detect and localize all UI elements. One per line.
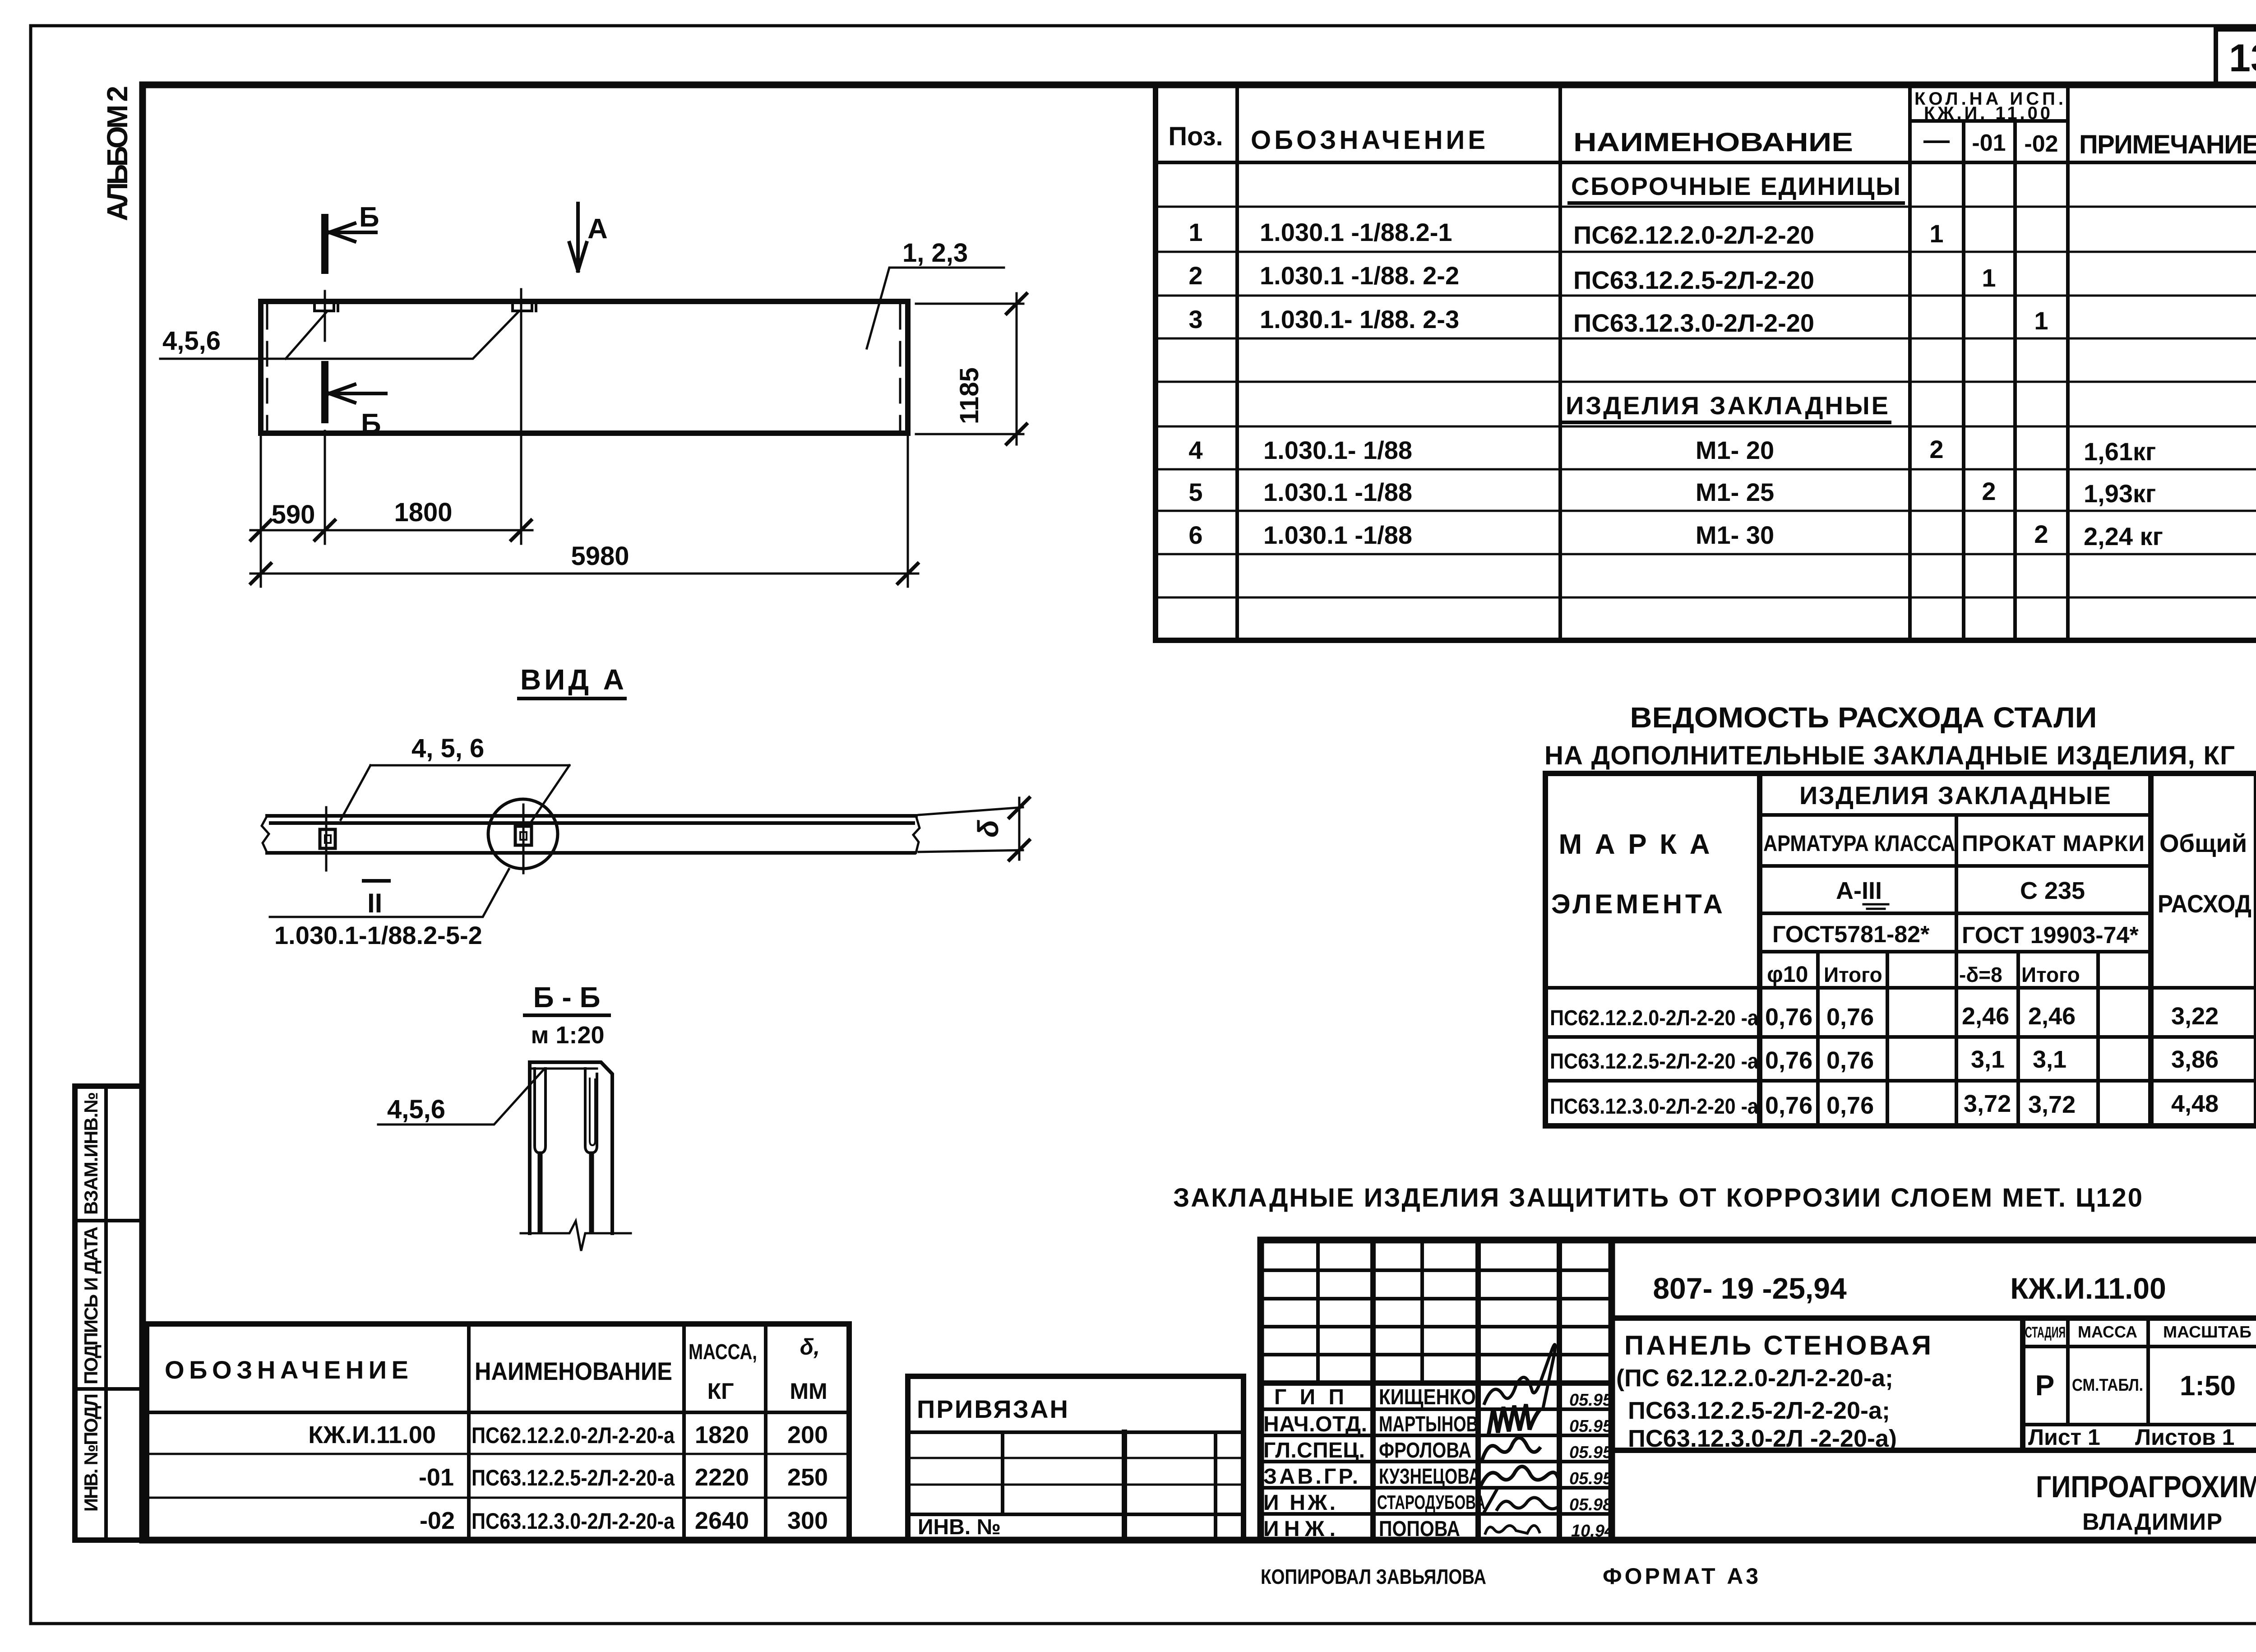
panel name <box>1616 1330 1931 1452</box>
header A-III <box>1836 877 1888 909</box>
svg-text:300: 300 <box>787 1507 828 1534</box>
svg-text:МАССА,: МАССА, <box>689 1340 757 1364</box>
leader 4,5,6 (plan) <box>160 311 518 359</box>
svg-text:δ: δ <box>972 819 1004 838</box>
section B-B column <box>530 1062 612 1233</box>
svg-text:ФОРМАТ А3: ФОРМАТ А3 <box>1603 1564 1758 1589</box>
steel row 3 <box>1550 1090 2219 1119</box>
svg-text:05.98: 05.98 <box>1569 1495 1613 1514</box>
svg-text:СТАРОДУБОВА: СТАРОДУБОВА <box>1377 1491 1485 1513</box>
corrosion note <box>1173 1183 2142 1212</box>
page number box <box>2216 29 2256 86</box>
svg-text:ГЛ.СПЕЦ.: ГЛ.СПЕЦ. <box>1263 1439 1365 1462</box>
svg-text:ПРИМЕЧАНИЕ: ПРИМЕЧАНИЕ <box>2079 130 2256 159</box>
section arrow B lower <box>329 384 386 403</box>
svg-text:ПС63.12.3.0-2Л-2-20: ПС63.12.3.0-2Л-2-20 <box>1573 309 1814 337</box>
title block line under numbers <box>1612 1315 2256 1321</box>
svg-text:3,22: 3,22 <box>2171 1003 2219 1030</box>
svg-text:4,5,6: 4,5,6 <box>387 1095 445 1124</box>
svg-text:И НЖ.: И НЖ. <box>1263 1491 1336 1515</box>
svg-text:—: — <box>1923 125 1950 155</box>
header Изделия закладные <box>1799 781 2111 810</box>
svg-text:ПРОКАТ МАРКИ: ПРОКАТ МАРКИ <box>1962 831 2145 856</box>
left margin stamp box <box>75 1086 143 1540</box>
svg-text:1.030.1-1/88.2-5-2: 1.030.1-1/88.2-5-2 <box>274 921 482 949</box>
svg-text:4: 4 <box>1188 436 1202 464</box>
svg-text:Б - Б: Б - Б <box>533 981 601 1013</box>
svg-text:3,72: 3,72 <box>1964 1090 2011 1117</box>
header Наименование (bottom table) <box>475 1357 672 1385</box>
svg-text:ПС63.12.3.0-2Л-2-20 -а: ПС63.12.3.0-2Л-2-20 -а <box>1550 1095 1758 1119</box>
svg-text:ПС63.12.3.0-2Л-2-20-а: ПС63.12.3.0-2Л-2-20-а <box>472 1509 675 1534</box>
svg-text:ЭЛЕМЕНТА: ЭЛЕМЕНТА <box>1551 889 1723 919</box>
index row 3 <box>420 1507 828 1534</box>
leader 1,2,3 <box>867 238 1004 348</box>
header Арматура класса <box>1763 831 1955 856</box>
svg-text:3,72: 3,72 <box>2028 1091 2076 1118</box>
row ГЛ.СПЕЦ. Фролова <box>1263 1439 1613 1462</box>
svg-text:φ10: φ10 <box>1767 962 1808 987</box>
svg-text:ПС63.12.2.5-2Л-2-20 -а: ПС63.12.2.5-2Л-2-20 -а <box>1550 1050 1758 1074</box>
svg-text:-02: -02 <box>2024 131 2058 157</box>
svg-text:3: 3 <box>1188 305 1202 333</box>
svg-text:Б: Б <box>361 408 381 440</box>
detail circle <box>488 799 558 869</box>
svg-text:ГОСТ5781-82*: ГОСТ5781-82* <box>1772 921 1930 948</box>
svg-text:1: 1 <box>1188 218 1202 246</box>
leader 4,5,6 (section) <box>378 1069 545 1124</box>
svg-text:2,24 кг: 2,24 кг <box>2084 522 2163 551</box>
svg-text:СБОРОЧНЫЕ ЕДИНИЦЫ: СБОРОЧНЫЕ ЕДИНИЦЫ <box>1571 172 1900 200</box>
row ГИП Кищенко <box>1274 1385 1613 1410</box>
vertical label Альбом 2 <box>101 86 134 221</box>
header Поз. <box>1168 122 1223 151</box>
header Общий расход <box>2158 829 2251 918</box>
thickness dimension delta <box>919 798 1029 860</box>
svg-text:М1- 25: М1- 25 <box>1696 478 1774 506</box>
signature rows grid <box>1261 1409 1612 1514</box>
embedded plate notch 2 <box>513 303 536 311</box>
svg-text:1.030.1- 1/88: 1.030.1- 1/88 <box>1263 436 1412 464</box>
svg-text:Общий: Общий <box>2159 829 2247 857</box>
leader 1.030.1-1/88.2-5-2 <box>270 869 509 949</box>
svg-text:δ,: δ, <box>800 1334 820 1360</box>
row 5 <box>1188 477 2156 508</box>
svg-text:-02: -02 <box>420 1507 455 1534</box>
label Инв.№ <box>918 1515 1001 1539</box>
dimension 1185 <box>916 293 1026 444</box>
letter B lower <box>361 408 381 440</box>
svg-text:ПАНЕЛЬ СТЕНОВАЯ: ПАНЕЛЬ СТЕНОВАЯ <box>1624 1330 1931 1360</box>
svg-text:МАСШТАБ: МАСШТАБ <box>2163 1323 2251 1341</box>
svg-text:0,76: 0,76 <box>1826 1004 1874 1031</box>
svg-text:ПОДПИСЬ И ДАТА: ПОДПИСЬ И ДАТА <box>80 1226 102 1384</box>
svg-text:СТАДИЯ: СТАДИЯ <box>2025 1324 2066 1341</box>
svg-text:1,61кг: 1,61кг <box>2084 437 2156 466</box>
svg-text:Итого: Итого <box>1824 963 1882 986</box>
svg-text:4, 5, 6: 4, 5, 6 <box>411 734 484 763</box>
svg-text:КЖ.И.11.00: КЖ.И.11.00 <box>308 1421 436 1448</box>
dimension 5980 <box>250 436 918 587</box>
row ИНЖ. Стародубова <box>1263 1491 1613 1515</box>
svg-text:МАРТЫНОВ: МАРТЫНОВ <box>1379 1412 1478 1436</box>
svg-text:АЛЬБОМ 2: АЛЬБОМ 2 <box>101 86 134 221</box>
svg-text:ВИД А: ВИД А <box>520 663 624 696</box>
svg-text:ИНВ. №ПОДЛ: ИНВ. №ПОДЛ <box>80 1393 102 1512</box>
svg-text:ВЗАМ.ИНВ.№: ВЗАМ.ИНВ.№ <box>80 1092 102 1215</box>
svg-text:3,1: 3,1 <box>2033 1046 2066 1073</box>
svg-text:РАСХОД: РАСХОД <box>2158 889 2251 918</box>
svg-text:1.030.1 -1/88: 1.030.1 -1/88 <box>1263 478 1412 506</box>
note Копировал / Формат <box>1261 1564 1758 1589</box>
svg-text:(ПС 62.12.2.0-2Л-2-20-а;: (ПС 62.12.2.0-2Л-2-20-а; <box>1616 1365 1893 1392</box>
name cell borders <box>1612 1318 2256 1450</box>
svg-text:ИЗДЕЛИЯ ЗАКЛАДНЫЕ: ИЗДЕЛИЯ ЗАКЛАДНЫЕ <box>1799 781 2111 810</box>
svg-text:М1- 30: М1- 30 <box>1696 521 1774 549</box>
svg-text:2,46: 2,46 <box>2028 1003 2076 1030</box>
header Масса, кг <box>689 1340 757 1404</box>
svg-text:ПС62.12.2.0-2Л-2-20 -а: ПС62.12.2.0-2Л-2-20 -а <box>1550 1006 1758 1030</box>
svg-text:6: 6 <box>1188 521 1202 549</box>
svg-text:ИЗДЕЛИЯ ЗАКЛАДНЫЕ: ИЗДЕЛИЯ ЗАКЛАДНЫЕ <box>1566 391 1888 420</box>
svg-text:1.030.1 -1/88: 1.030.1 -1/88 <box>1263 521 1412 549</box>
svg-text:НАИМЕНОВАНИЕ: НАИМЕНОВАНИЕ <box>1573 128 1853 157</box>
svg-text:ВЛАДИМИР: ВЛАДИМИР <box>2082 1509 2222 1535</box>
svg-text:2: 2 <box>1982 477 1996 505</box>
title block frame <box>1261 1240 2256 1540</box>
specification table grid <box>1156 86 2256 640</box>
detail label II <box>364 881 389 918</box>
svg-text:КЖ.И.11.00: КЖ.И.11.00 <box>2010 1272 2166 1305</box>
row 6 <box>1188 520 2163 551</box>
svg-text:ЗАКЛАДНЫЕ ИЗДЕЛИЯ ЗАЩИТИТЬ ОТ: ЗАКЛАДНЫЕ ИЗДЕЛИЯ ЗАЩИТИТЬ ОТ КОРРОЗИИ С… <box>1173 1183 2142 1212</box>
svg-text:КИЩЕНКО: КИЩЕНКО <box>1379 1385 1476 1409</box>
subtitle Сборочные единицы <box>1569 172 1903 203</box>
svg-text:3,1: 3,1 <box>1971 1046 2005 1073</box>
svg-text:1.030.1 -1/88.2-1: 1.030.1 -1/88.2-1 <box>1260 218 1452 246</box>
section line B upper <box>324 217 326 341</box>
steel table title <box>1544 701 2235 770</box>
section arrow B upper <box>329 223 376 241</box>
row ЗАВ.ГР. Кузнецова <box>1263 1465 1613 1489</box>
view A title <box>519 663 625 699</box>
svg-text:ОБОЗНАЧЕНИЕ: ОБОЗНАЧЕНИЕ <box>1251 125 1485 155</box>
svg-text:4,48: 4,48 <box>2171 1090 2219 1117</box>
svg-text:2: 2 <box>1188 261 1202 290</box>
svg-text:1820: 1820 <box>695 1421 749 1448</box>
svg-text:4,5,6: 4,5,6 <box>162 326 221 356</box>
svg-text:ПС63.12.2.5-2Л-2-20: ПС63.12.2.5-2Л-2-20 <box>1573 266 1814 294</box>
svg-text:0,76: 0,76 <box>1765 1092 1812 1119</box>
row 3 <box>1188 305 2048 337</box>
Лист / Листов <box>2028 1425 2234 1450</box>
svg-text:1,93кг: 1,93кг <box>2084 479 2156 508</box>
svg-text:СМ.ТАБЛ.: СМ.ТАБЛ. <box>2072 1376 2143 1395</box>
svg-text:С 235: С 235 <box>2020 877 2085 904</box>
header Обозначение (bottom table) <box>165 1356 408 1384</box>
svg-text:590: 590 <box>272 500 315 529</box>
svg-text:Б: Б <box>359 202 379 233</box>
svg-text:II: II <box>367 888 382 918</box>
svg-text:3,86: 3,86 <box>2171 1046 2219 1073</box>
svg-text:Итого: Итого <box>2021 963 2080 986</box>
svg-text:А: А <box>587 213 608 245</box>
dimension 590 / 1800 <box>250 434 532 544</box>
svg-text:807- 19 -25,94: 807- 19 -25,94 <box>1653 1272 1847 1305</box>
svg-text:1: 1 <box>1982 264 1996 292</box>
header GOST 5781-82 <box>1772 921 1930 948</box>
svg-text:-δ=8: -δ=8 <box>1959 963 2002 986</box>
label Привязан <box>917 1395 1068 1423</box>
svg-text:ПС63.12.2.5-2Л-2-20-а;: ПС63.12.2.5-2Л-2-20-а; <box>1628 1397 1890 1424</box>
row НАЧ.ОТД. Мартынов <box>1263 1412 1613 1436</box>
Стадия Масса Масштаб <box>2023 1318 2256 1425</box>
embedded plate mark 1 (view A) <box>320 807 335 870</box>
column break line <box>521 1221 631 1251</box>
svg-text:м 1:20: м 1:20 <box>531 1022 604 1049</box>
page number 13 <box>2229 37 2256 80</box>
svg-text:0,76: 0,76 <box>1826 1047 1874 1074</box>
leader 4,5,6 (view A) <box>341 734 569 825</box>
svg-text:КОПИРОВАЛ ЗАВЬЯЛОВА: КОПИРОВАЛ ЗАВЬЯЛОВА <box>1261 1565 1486 1588</box>
svg-text:М1- 20: М1- 20 <box>1696 436 1774 464</box>
svg-text:АРМАТУРА КЛАССА: АРМАТУРА КЛАССА <box>1763 831 1955 856</box>
svg-text:2640: 2640 <box>695 1507 749 1534</box>
svg-text:Листов 1: Листов 1 <box>2135 1425 2234 1450</box>
letter B upper <box>359 202 379 233</box>
svg-text:0,76: 0,76 <box>1765 1004 1812 1031</box>
svg-text:НА ДОПОЛНИТЕЛЬНЫЕ ЗАКЛАДНЫЕ ИЗ: НА ДОПОЛНИТЕЛЬНЫЕ ЗАКЛАДНЫЕ ИЗДЕЛИЯ, КГ <box>1544 741 2235 770</box>
svg-text:А-III: А-III <box>1836 877 1882 904</box>
svg-text:1:50: 1:50 <box>2180 1370 2236 1402</box>
svg-text:200: 200 <box>787 1421 828 1448</box>
svg-text:ФРОЛОВА: ФРОЛОВА <box>1379 1439 1471 1462</box>
svg-text:5980: 5980 <box>571 541 629 571</box>
section line A <box>520 289 522 544</box>
svg-text:Лист 1: Лист 1 <box>2028 1425 2100 1450</box>
svg-text:5: 5 <box>1188 478 1202 506</box>
view A bar <box>262 816 920 853</box>
svg-text:05.95: 05.95 <box>1569 1391 1613 1410</box>
label ПОДПИСЬ И ДАТА <box>80 1226 102 1384</box>
section arrow A <box>569 204 587 271</box>
subtitle Изделия закладные <box>1563 391 1890 422</box>
svg-text:ИНВ. №: ИНВ. № <box>918 1515 1001 1539</box>
header Обозначение <box>1251 125 1485 155</box>
row ИНЖ. Попова <box>1263 1517 1614 1541</box>
svg-text:2: 2 <box>1929 435 1943 463</box>
svg-text:ММ: ММ <box>790 1379 827 1404</box>
svg-text:ГИП: ГИП <box>1274 1385 1344 1409</box>
section B-B title <box>525 981 609 1049</box>
svg-text:2,46: 2,46 <box>1962 1003 2009 1030</box>
header delta, мм <box>790 1334 827 1404</box>
right anchor slot <box>585 1069 597 1232</box>
svg-text:1185: 1185 <box>955 367 984 424</box>
header dash / -01 / -02 <box>1923 125 2058 157</box>
organization <box>2036 1470 2256 1535</box>
wall panel outline (plan) <box>261 301 908 433</box>
svg-text:10,94: 10,94 <box>1571 1522 1614 1541</box>
subheaders f10 / Итого / -d=8 / Итого <box>1767 962 2080 987</box>
svg-text:ОБОЗНАЧЕНИЕ: ОБОЗНАЧЕНИЕ <box>165 1356 408 1384</box>
steel row 1 <box>1550 1003 2219 1031</box>
svg-text:2: 2 <box>2034 520 2048 548</box>
header Прокат марки <box>1962 831 2145 856</box>
svg-text:ГОСТ 19903-74*: ГОСТ 19903-74* <box>1962 922 2139 949</box>
svg-text:КГ: КГ <box>707 1379 734 1404</box>
header C235 <box>2020 877 2085 904</box>
header Наименование <box>1573 128 1853 157</box>
svg-text:-01: -01 <box>419 1464 454 1491</box>
svg-text:ПС63.12.2.5-2Л-2-20-а: ПС63.12.2.5-2Л-2-20-а <box>472 1465 675 1490</box>
svg-text:1, 2,3: 1, 2,3 <box>902 238 968 268</box>
svg-text:05.95: 05.95 <box>1569 1443 1613 1462</box>
signatures scribble <box>1481 1345 1559 1533</box>
svg-text:05.95: 05.95 <box>1569 1417 1613 1436</box>
bottom-left index table <box>147 1324 849 1540</box>
letter A <box>587 213 608 245</box>
svg-text:250: 250 <box>787 1464 828 1491</box>
svg-text:ВЕДОМОСТЬ РАСХОДА СТАЛИ: ВЕДОМОСТЬ РАСХОДА СТАЛИ <box>1630 701 2097 734</box>
section line B lower <box>321 365 328 544</box>
svg-text:13: 13 <box>2229 37 2256 80</box>
hidden edge dashed left <box>266 305 268 430</box>
header GOST 19903-74 <box>1962 922 2139 949</box>
svg-text:1.030.1- 1/88. 2-3: 1.030.1- 1/88. 2-3 <box>1260 305 1459 333</box>
row 2 <box>1188 261 1996 294</box>
svg-text:05.95: 05.95 <box>1569 1469 1613 1488</box>
svg-text:1800: 1800 <box>394 498 452 527</box>
steel table grid <box>1545 773 2256 1126</box>
header Кол. на исп. <box>1914 89 2063 123</box>
svg-text:0,76: 0,76 <box>1826 1092 1874 1119</box>
label ВЗАМ.ИНВ.№ <box>80 1092 102 1215</box>
row 4 <box>1188 435 2156 466</box>
svg-text:1.030.1 -1/88. 2-2: 1.030.1 -1/88. 2-2 <box>1260 261 1459 290</box>
embedded plate notch 1 <box>314 303 338 311</box>
svg-text:Поз.: Поз. <box>1168 122 1223 151</box>
header Примечание <box>2079 130 2256 159</box>
label ИНВ.№ПОДЛ <box>80 1393 102 1512</box>
svg-text:МАССА: МАССА <box>2078 1323 2137 1341</box>
svg-text:ПОПОВА: ПОПОВА <box>1379 1517 1460 1541</box>
svg-text:НАЧ.ОТД.: НАЧ.ОТД. <box>1263 1412 1367 1436</box>
svg-text:ПС62.12.2.0-2Л-2-20: ПС62.12.2.0-2Л-2-20 <box>1573 221 1814 249</box>
index row 2 <box>419 1464 828 1491</box>
svg-text:Р: Р <box>2035 1369 2055 1402</box>
document numbers <box>1653 1272 2166 1305</box>
binding box <box>908 1376 1244 1540</box>
hidden edge dashed right <box>899 305 901 430</box>
svg-text:1: 1 <box>1929 219 1943 248</box>
embedded plate mark 2 (view A) <box>515 805 532 873</box>
svg-text:0,76: 0,76 <box>1765 1047 1812 1074</box>
index row 1 <box>308 1421 828 1448</box>
title block revision grid <box>1261 1240 1612 1540</box>
svg-text:2220: 2220 <box>695 1464 749 1491</box>
steel row 2 <box>1550 1046 2219 1074</box>
svg-text:НАИМЕНОВАНИЕ: НАИМЕНОВАНИЕ <box>475 1357 672 1385</box>
left anchor slot <box>535 1069 546 1232</box>
svg-text:1: 1 <box>2034 306 2048 335</box>
svg-text:ГИПРОАГРОХИМ: ГИПРОАГРОХИМ <box>2036 1470 2256 1504</box>
header Марка элемента <box>1551 829 1723 919</box>
row 1 <box>1188 218 1943 249</box>
svg-text:-01: -01 <box>1972 130 2006 156</box>
svg-text:ПС62.12.2.0-2Л-2-20-а: ПС62.12.2.0-2Л-2-20-а <box>472 1423 675 1448</box>
svg-text:КУЗНЕЦОВА: КУЗНЕЦОВА <box>1379 1465 1480 1489</box>
